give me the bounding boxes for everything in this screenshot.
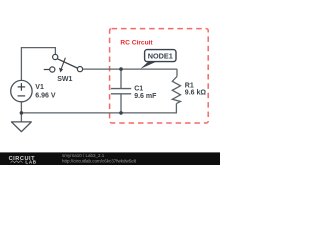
svg-text:NODE1: NODE1 <box>148 52 173 61</box>
svg-text:6.96 V: 6.96 V <box>35 92 56 99</box>
svg-text:R1: R1 <box>185 83 194 90</box>
wire: V1 bottom to ground/junction <box>20 102 22 122</box>
switch SW1 throw terminal (unused) <box>50 67 55 72</box>
capacitor C1 plates <box>111 88 131 90</box>
NODE1 callout tail <box>141 61 158 68</box>
svg-text:V1: V1 <box>35 84 44 91</box>
switch SW1 actuator arrow <box>61 58 65 69</box>
wire: capacitor C1 top lead <box>120 69 122 89</box>
CircuitLab logo: waveform <box>11 161 23 163</box>
svg-text:9.6 kΩ: 9.6 kΩ <box>185 90 207 97</box>
wire: capacitor C1 bottom lead <box>120 94 122 113</box>
NODE1 callout box <box>145 50 176 62</box>
svg-text:9.6 mF: 9.6 mF <box>134 93 157 100</box>
node junction dot at V1 bottom <box>20 111 24 115</box>
RC Circuit dashed enclosure box <box>110 29 209 123</box>
svg-text:C1: C1 <box>134 85 143 92</box>
wire: main horizontal from switch common to resistor <box>83 68 177 70</box>
voltage source V1 <box>11 80 32 101</box>
node junction dot at NODE1 on top wire <box>119 67 123 71</box>
switch SW1 common terminal <box>77 67 82 72</box>
node junction dot bottom capacitor <box>119 111 123 115</box>
switch SW1 throw terminal (top) <box>53 54 58 59</box>
svg-text:RC Circuit: RC Circuit <box>120 39 153 46</box>
svg-text:SW1: SW1 <box>57 76 72 83</box>
resistor R1 zigzag body <box>172 76 180 103</box>
wire: bottom return wire <box>21 112 177 114</box>
ground <box>12 122 32 132</box>
svg-text:LAB: LAB <box>25 160 36 165</box>
svg-text:http://circuitlab.com/c6kc37fw: http://circuitlab.com/c6kc37fwkdw5e8 <box>62 158 137 163</box>
watermark footer bar <box>0 152 220 165</box>
wire: top-left horizontal from V1 to switch <box>21 48 55 81</box>
switch SW1 lever <box>57 59 77 68</box>
wire: resistor R1 leads <box>176 69 178 76</box>
switch unused throw stub <box>44 69 50 71</box>
